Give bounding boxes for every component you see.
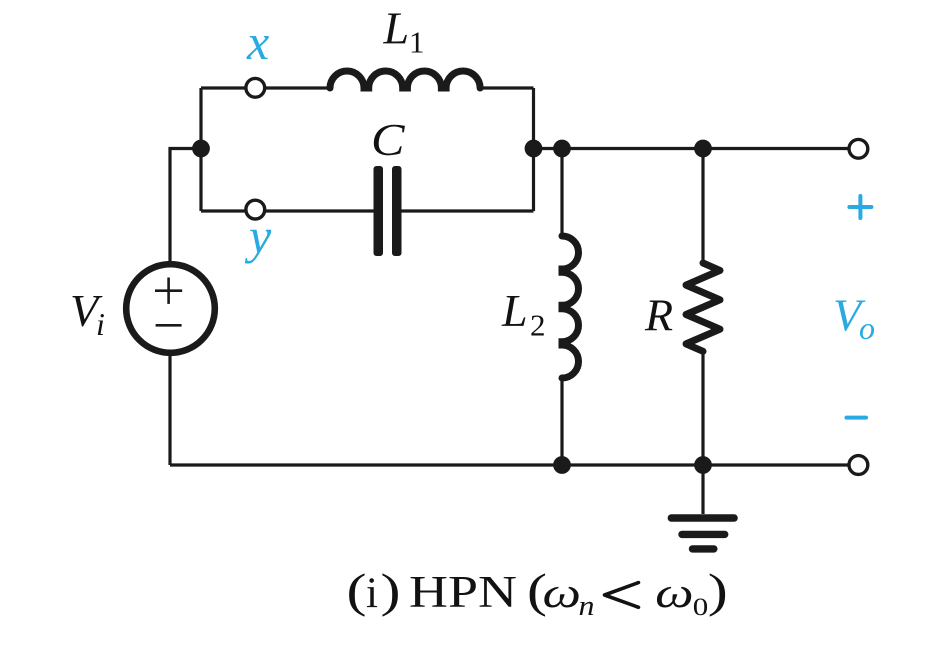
wire bottom of loop: capacitor to right vertical [402,209,534,212]
wire bottom rail [170,463,849,466]
svg-text:L: L [501,285,528,336]
ground [671,518,734,549]
svg-text:R: R [644,290,673,341]
svg-text:0: 0 [693,594,709,621]
junction dot at R bottom / ground [694,456,712,474]
output + sign [849,196,871,218]
output - sign [847,416,867,420]
svg-text:L: L [383,3,410,54]
svg-text:ω: ω [543,570,582,617]
svg-text:C: C [371,114,406,165]
svg-text:): ) [381,564,401,617]
svg-text:n: n [579,590,595,622]
junction dot at L2 top [553,140,571,158]
source Vi [126,264,215,353]
output terminal top (open circle) [849,139,868,158]
resistor R [686,263,720,351]
svg-text:o: o [859,310,875,346]
wire R top lead [701,149,704,264]
node B (junction dot, right of loop) [525,140,543,158]
wire mid rail node B to output + terminal [534,147,850,150]
wire top: node to L1 left [201,86,330,89]
wire ground stub [701,465,704,514]
capacitor C plates [374,166,402,256]
inductor L1 [330,71,480,88]
wire R bottom lead [701,351,704,465]
wire L2 bottom lead [560,378,563,465]
wire Vi bottom lead [168,356,171,465]
wire bottom of loop: left to capacitor [201,209,374,212]
terminal y (open circle) [246,200,265,219]
svg-text:x: x [246,14,269,70]
svg-text:ω: ω [655,570,694,617]
caption [347,564,728,622]
svg-text:y: y [244,208,272,264]
output terminal bottom (open circle) [849,456,868,475]
wire top: L1 right to right vertical [480,86,533,89]
svg-text:(: ( [347,564,367,617]
wire right vertical of L1/C loop [532,88,535,211]
junction dot at L2 bottom [553,456,571,474]
svg-text:): ) [708,564,728,617]
node A (junction dot, left) [192,140,210,158]
wire left vertical of L1/C loop [199,88,202,211]
wire L2 top lead [560,149,563,237]
svg-text:i: i [366,570,378,617]
wire Vi top lead to node A [170,149,201,263]
svg-text:1: 1 [409,25,425,60]
inductor L2 [562,236,579,378]
svg-text:HPN: HPN [409,567,517,617]
junction dot at R top [694,140,712,158]
svg-text:i: i [96,306,105,342]
svg-text:2: 2 [530,308,546,343]
terminal x (open circle) [246,78,265,97]
